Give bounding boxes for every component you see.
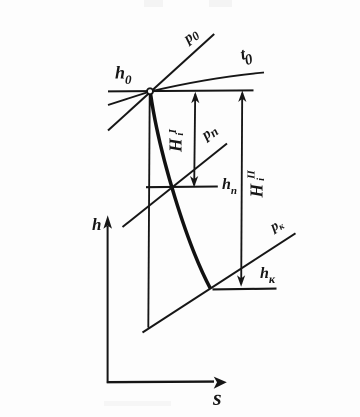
H_i^II double arrow (from h0 level to h_k level) [237,91,246,287]
svg-text:t0: t0 [238,43,255,70]
label p0 [179,25,203,49]
label p_k [267,215,287,236]
svg-text:HIi: HIi [166,128,187,153]
h0 level horizontal line [108,90,254,91]
label H_i^I (rotated) [166,128,187,153]
isobar p_p line [123,144,228,228]
point O (initial state, open circle) [147,88,153,94]
isotherm t0 curve through point O [108,73,264,106]
label t0 [238,43,255,70]
actual expansion thick curve from O to end point [151,94,211,289]
h_k level short horizontal line [213,288,277,291]
faint scan remnant top-left [144,0,163,7]
svg-text:pк: pк [267,215,287,236]
isobar p0 line through point O [108,34,214,131]
svg-text:p0: p0 [179,25,203,49]
svg-text:h: h [92,215,101,234]
svg-text:pп: pп [197,122,221,146]
label p_p [197,122,221,146]
svg-text:hк: hк [260,265,276,286]
svg-text:HIIi: HIIi [246,170,268,199]
h_p level short horizontal line [146,185,218,188]
label H_i^II (rotated) [246,170,268,199]
s axis (horizontal with right arrowhead) [107,377,227,389]
H_i^I double arrow (from h0 level to h_p level) [190,92,199,188]
faint scan remnant top-right [209,0,232,7]
isentrope vertical line from O down to pk [148,95,149,328]
h axis (vertical with up arrowhead) [103,215,112,383]
faint scan smudge bottom [104,401,171,406]
svg-text:hп: hп [222,176,237,197]
svg-text:h0: h0 [115,63,132,88]
svg-text:s: s [212,385,222,410]
isobar p_k line [143,233,296,332]
